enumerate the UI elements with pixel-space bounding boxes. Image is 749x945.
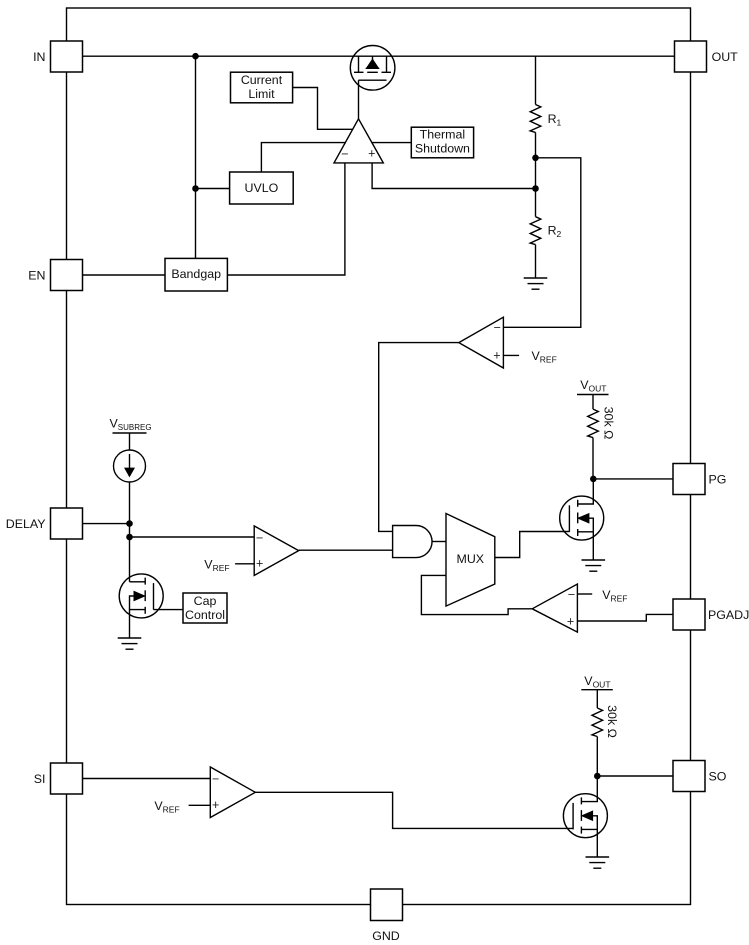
node PG junction [590,476,597,483]
transistor pass PMOS [350,46,395,91]
op-amp PG threshold comparator [459,317,504,368]
wire PGADJ comparator minus stub [577,593,592,595]
svg-text:Control: Control [185,608,225,622]
svg-text:+: + [368,147,375,161]
resistor R1 [530,105,541,133]
svg-text:30k Ω: 30k Ω [602,407,616,440]
block Cap Control [183,593,227,623]
ground below Cap Control NMOS [118,638,142,649]
svg-text:SO: SO [709,770,727,784]
svg-text:Shutdown: Shutdown [415,142,470,156]
IC boundary outline [67,8,691,905]
wire divider tap to PG comparator minus [503,158,580,327]
svg-text:−: − [494,320,501,334]
resistor 30k (PG) [588,409,599,437]
node delay junction upper [126,520,133,527]
wire current source to delay node [129,482,131,582]
block Current Limit [231,72,293,103]
wire error amp to Thermal Shutdown [372,142,411,144]
resistor R2 [530,217,541,245]
wire Cap Control gate lead [154,609,184,611]
svg-text:UVLO: UVLO [245,181,279,195]
block Thermal Shutdown [411,127,473,158]
pin IN [51,41,83,72]
wire error amp plus input to feedback node [372,163,535,189]
current source (delay charger) [114,450,146,482]
wire SO node to SO pin [597,775,673,777]
ground below R2 [524,278,548,289]
node divider tap lower (feedback) [532,185,539,192]
node SO junction [594,773,601,780]
svg-text:−: − [341,147,348,161]
wire UVLO left lead [196,188,230,190]
supply bar VOUT (PG) [577,394,609,396]
wire PG comparator plus stub [503,354,519,356]
wire IN to OUT rail [83,55,675,57]
wire PGADJ pin to comparator plus [577,614,673,621]
svg-text:OUT: OUT [712,50,739,64]
pin SI [51,763,83,794]
wire SI pin to comparator minus [83,778,211,780]
svg-text:+: + [493,349,500,363]
node delay junction lower [126,534,133,541]
pin SO [673,761,705,792]
svg-text:+: + [212,798,219,812]
wire DELAY comparator output to AND gate [299,549,393,551]
wire PGADJ comparator output to MUX select [421,575,532,614]
ground below SO NMOS [586,857,610,868]
pin OUT [675,41,707,72]
wire Current Limit to error amp [293,88,354,130]
node junction UVLO tap [192,185,199,192]
svg-text:EN: EN [28,269,45,283]
svg-text:PGADJ: PGADJ [708,608,749,622]
wire PG node to PG pin [593,478,673,480]
ground below PG NMOS [582,560,606,571]
node divider tap upper [532,155,539,162]
svg-text:Cap: Cap [194,594,217,608]
svg-text:−: − [256,531,263,545]
transistor Cap Control NMOS [119,574,163,638]
wire VOUT bar to 30k resistor (SO) [596,690,598,708]
wire MUX output to PG NMOS gate [495,532,570,558]
wire Bandgap to error amp minus input [227,163,345,275]
wire SI comparator output to SO NMOS gate [255,792,573,828]
op-amp DELAY comparator [254,526,299,576]
transistor SO pull-down NMOS [563,776,607,857]
wire UVLO top to error-amp minus edge [261,143,346,172]
svg-text:Thermal: Thermal [420,128,465,142]
wire 30k to PG node [592,438,594,479]
block UVLO [230,172,294,204]
wire R2 to ground [535,245,537,278]
pin PGADJ [673,599,705,630]
svg-text:GND: GND [372,929,400,943]
wire 30k to SO node [596,737,598,777]
svg-text:+: + [256,557,263,571]
op-amp PGADJ comparator [532,584,577,632]
wire DELAY comparator plus stub [235,563,254,565]
resistor 30k (SO) [592,708,603,737]
wire PMOS gate to error amp [358,80,360,119]
pin PG [673,464,705,495]
svg-text:DELAY: DELAY [6,517,46,531]
wire AND output to MUX [432,541,446,543]
svg-text:PG: PG [709,473,727,487]
wire bar to current source [129,433,131,450]
svg-text:−: − [568,588,575,602]
wire DELAY pin to node [83,523,130,525]
block Bandgap [165,258,227,291]
svg-text:−: − [212,772,219,786]
svg-text:IN: IN [33,50,45,64]
MUX trapezoid [446,514,495,607]
transistor PG pull-down NMOS [560,479,604,560]
svg-text:Bandgap: Bandgap [171,267,221,281]
wire R1 to R2 [535,132,537,216]
wire EN to Bandgap [83,274,166,276]
svg-text:30k Ω: 30k Ω [605,705,619,738]
pin DELAY [51,508,83,539]
wire SI comparator plus stub [189,804,211,806]
svg-text:MUX: MUX [457,552,485,566]
pin GND [371,889,403,921]
op-amp SI comparator [210,767,255,818]
pin EN [51,260,83,291]
op-amp error amplifier [334,119,383,163]
wire delay node to comparator minus [130,536,255,538]
AND gate [393,526,432,558]
svg-text:+: + [567,614,574,628]
svg-text:SI: SI [34,772,46,786]
wire divider upper lead [535,56,537,104]
svg-text:Limit: Limit [248,87,275,101]
wire PG comparator output to AND gate [379,343,459,532]
wire VOUT bar to 30k resistor [592,395,594,410]
wire IN-rail down to Bandgap [195,56,197,258]
node junction on IN rail [192,53,199,60]
supply bar VOUT (SO) [581,689,613,691]
svg-text:Current: Current [241,73,283,87]
supply bar VSUBREG [113,432,147,434]
